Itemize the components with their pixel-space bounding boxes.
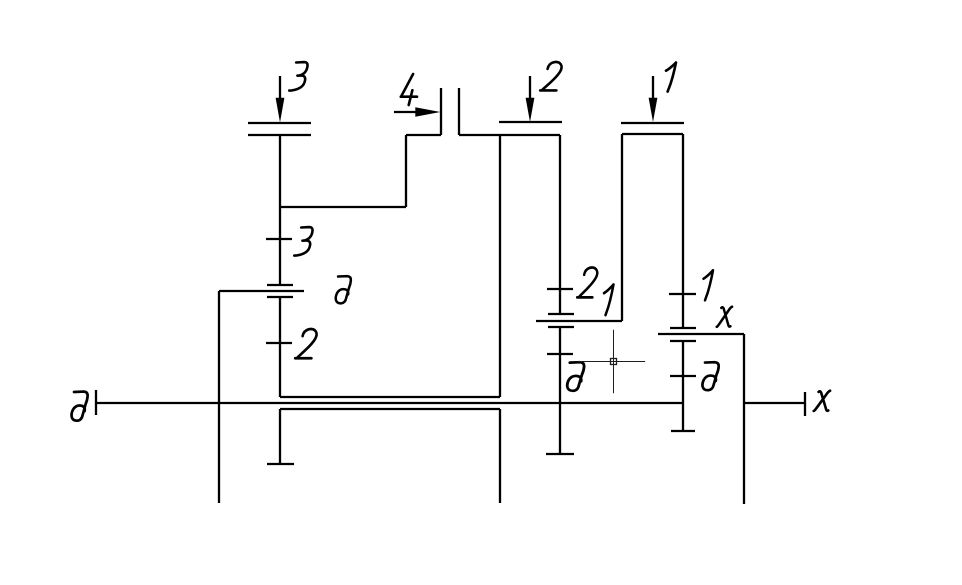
brake 1 upper plate xyxy=(621,122,684,124)
link riser at 406 xyxy=(405,135,407,207)
gear bar at 560 below axis xyxy=(546,453,574,455)
label x at right shaft end xyxy=(814,391,830,411)
clutch d middle plate line xyxy=(219,290,304,292)
gear tick d on shaft 560 xyxy=(547,353,573,355)
label 3 at arrow 3 xyxy=(289,62,307,91)
drum shaft 280 upper segment xyxy=(279,135,281,285)
output drum right wall at 744 xyxy=(743,334,745,504)
label 2 at gear tick 341 xyxy=(295,329,316,358)
arrow 1 head xyxy=(649,98,658,122)
brake 1 frame left leg xyxy=(621,134,623,321)
brake 3 lower plate xyxy=(248,134,311,136)
arrow 1 stem xyxy=(652,76,654,100)
cursor crosshair vertical xyxy=(613,330,615,394)
cursor aperture box xyxy=(611,359,617,365)
label 2 at arrow 2 xyxy=(540,62,561,90)
label d at gear tick shaft 560 xyxy=(567,362,584,391)
shaft 560 lower segment xyxy=(559,327,561,454)
clutch 560 lower plate xyxy=(548,326,574,328)
label 1 of gear pair xyxy=(604,285,614,316)
gear bar at 280 below axis xyxy=(267,463,294,465)
clutch x middle plate line xyxy=(658,333,744,335)
label 1 at gear tick shaft 683 xyxy=(704,270,714,300)
gear tick 2 on shaft 280 xyxy=(266,342,292,344)
upper connecting rail 280 to 500 xyxy=(280,396,500,398)
brake 2 frame left leg xyxy=(499,135,501,397)
clutch 560 upper plate xyxy=(548,313,574,315)
arrow 3 head xyxy=(276,98,285,123)
right drop wall at 500 below axis xyxy=(499,409,501,503)
brake 1 frame right leg / shaft 683 upper xyxy=(682,134,684,328)
drum shaft 280 lower segment xyxy=(279,297,281,397)
label 4 at arrow 4 xyxy=(401,74,417,105)
shaft end tick right (running gear side) xyxy=(804,392,806,416)
arrow 3 stem xyxy=(279,76,281,100)
gear tick 2 on shaft 560 xyxy=(547,288,573,290)
label 1 at arrow 1 xyxy=(666,63,676,92)
clutch 4 left disc xyxy=(440,88,442,135)
label x at clutch 683 xyxy=(717,307,732,327)
brake 2 upper plate xyxy=(499,121,562,123)
arrow 2 head xyxy=(526,98,535,122)
drum left vertical wall xyxy=(218,291,220,503)
arrow 4 stem xyxy=(394,111,417,113)
clutch x lower plate xyxy=(670,340,696,342)
clutch d lower plate xyxy=(267,296,293,298)
lower connecting rail 280 to 500 xyxy=(280,408,500,410)
label d at gear tick shaft 683 xyxy=(702,362,718,390)
gear tick 3 on shaft 280 xyxy=(266,238,292,240)
clutch d upper plate xyxy=(267,284,293,286)
gear tick d on shaft 683 xyxy=(670,375,696,377)
link rail from shaft 280 to clutch 4 xyxy=(280,206,406,208)
clutch 4 right disc xyxy=(458,88,460,135)
shaft 683 lower segment xyxy=(682,341,684,431)
clutch 560 middle plate line xyxy=(536,320,622,322)
label 3 at gear tick xyxy=(294,227,312,256)
output shaft axis right segment xyxy=(745,402,805,404)
label d at clutch 280 xyxy=(336,276,351,303)
brake 1 frame top rail xyxy=(622,133,683,135)
label 2 of gear pair xyxy=(577,268,597,298)
cursor crosshair horizontal xyxy=(577,361,645,363)
gear drop leg at 280 below axis xyxy=(279,409,281,464)
arrow 2 stem xyxy=(529,76,531,100)
clutch x upper plate xyxy=(670,327,696,329)
arrow 4 head xyxy=(415,107,440,116)
gear tick 1 on shaft 683 xyxy=(669,293,696,295)
brake 2 frame right leg / shaft 560 upper xyxy=(559,135,561,314)
rail from clutch 4 to brake 2 frame xyxy=(459,134,560,136)
brake 3 upper plate xyxy=(248,122,311,124)
input shaft axis left segment xyxy=(96,402,683,404)
label d at left shaft end xyxy=(72,392,88,421)
gear bar at 683 below axis xyxy=(671,430,695,432)
link top rail to clutch 4 xyxy=(406,134,441,136)
shaft end tick left (engine side) xyxy=(95,390,97,415)
